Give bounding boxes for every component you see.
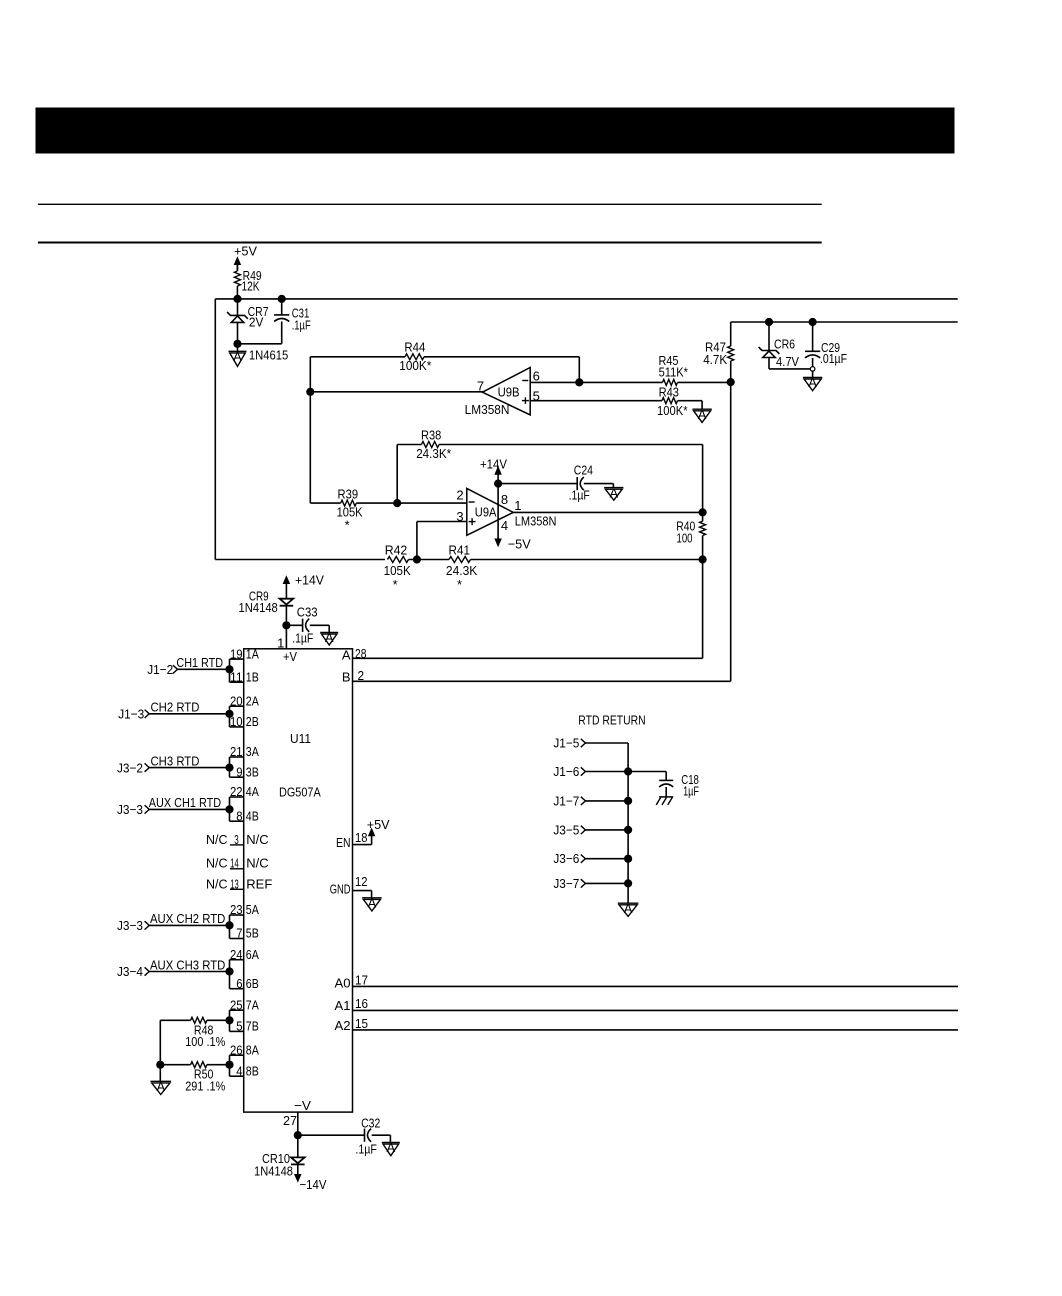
svg-text:RTD RETURN: RTD RETURN: [578, 713, 645, 728]
wire CR6 to C29 bottom: [769, 368, 810, 370]
pin A0 (17) wire: [335, 973, 959, 991]
node -14V: [295, 1174, 327, 1192]
node +14V (U9A): [480, 456, 507, 483]
svg-text:+5V: +5V: [234, 244, 257, 259]
connector J1-7: [553, 793, 632, 808]
svg-text:J1−7: J1−7: [553, 793, 579, 808]
pin 8 label: [501, 492, 508, 507]
svg-text:1N4148: 1N4148: [254, 1164, 293, 1179]
svg-text:AUX CH1 RTD: AUX CH1 RTD: [149, 795, 221, 810]
svg-text:+14V: +14V: [480, 456, 507, 471]
pin 1 label: [514, 498, 521, 513]
svg-text:REF: REF: [246, 876, 272, 891]
diode CR9: [239, 589, 294, 649]
junction pin6/R44: [575, 378, 583, 386]
wire pin5: [530, 400, 662, 402]
svg-text:A1: A1: [335, 998, 351, 1013]
svg-text:511K*: 511K*: [659, 365, 688, 380]
resistor R40: [676, 512, 705, 559]
svg-text:R42: R42: [385, 543, 408, 558]
svg-text:1N4148: 1N4148: [239, 600, 278, 615]
resistor R44: [310, 340, 579, 373]
pin pair 8A/8B (26/4): [225, 1042, 259, 1078]
svg-text:27: 27: [283, 1113, 297, 1128]
svg-text:A: A: [609, 485, 618, 500]
svg-text:2A: 2A: [246, 693, 259, 708]
wire CR7-C31 link: [238, 343, 282, 345]
node open junction C29/CR6: [810, 367, 815, 372]
svg-text:+5V: +5V: [367, 817, 390, 832]
svg-text:R38: R38: [421, 428, 441, 443]
resistor R41: [446, 543, 478, 592]
ground R48/R50 (analog): [151, 1065, 172, 1095]
svg-text:17: 17: [355, 973, 368, 988]
svg-text:100K*: 100K*: [657, 403, 688, 418]
ground C24 (analog): [604, 484, 623, 501]
svg-text:24.3K: 24.3K: [446, 563, 478, 578]
junction R47 bottom: [727, 378, 735, 386]
pin 5 label: [533, 388, 540, 403]
svg-text:11: 11: [230, 669, 243, 684]
svg-text:R44: R44: [404, 340, 425, 355]
junction +14V/C24: [494, 480, 502, 488]
U9A plus input: [469, 518, 476, 525]
svg-text:U11: U11: [290, 731, 311, 746]
svg-text:100: 100: [677, 530, 693, 545]
svg-text:6: 6: [533, 369, 540, 384]
svg-text:1N4615: 1N4615: [249, 348, 288, 363]
svg-text:23: 23: [230, 902, 243, 917]
pin EN (18) +5V: [336, 817, 390, 850]
pin 4 label: [501, 518, 508, 533]
svg-text:R39: R39: [338, 487, 359, 502]
svg-text:25: 25: [230, 997, 243, 1012]
junction C29 top: [809, 318, 817, 326]
connector J1-5: [553, 736, 628, 751]
junction output/R40: [699, 508, 707, 516]
svg-text:N/C: N/C: [246, 855, 268, 870]
svg-text:A: A: [342, 647, 351, 662]
junction R49/top rail: [233, 295, 241, 303]
svg-text:R43: R43: [659, 385, 679, 400]
svg-text:J3−3: J3−3: [117, 918, 143, 933]
wire RTD return trunk: [627, 743, 629, 903]
junction CR9/C33: [282, 621, 290, 629]
header rule upper: [38, 203, 822, 205]
wire pin B feed: [353, 382, 731, 681]
resistor R43: [657, 385, 702, 418]
svg-text:2B: 2B: [246, 714, 259, 729]
svg-text:R41: R41: [449, 543, 471, 558]
svg-text:J1−3: J1−3: [118, 707, 144, 722]
junction R40 bottom: [699, 555, 707, 563]
svg-text:A: A: [156, 1079, 165, 1094]
svg-text:J3−3: J3−3: [117, 802, 143, 817]
svg-text:*: *: [345, 518, 350, 533]
svg-text:1A: 1A: [246, 646, 259, 661]
connector J3-5: [553, 822, 632, 837]
svg-text:*: *: [393, 577, 398, 592]
op-amp U9A: [467, 488, 557, 535]
svg-text:19: 19: [230, 646, 243, 661]
svg-text:6B: 6B: [246, 976, 259, 991]
input channel CH2 RTD (J1−3 pins 20/10): [118, 693, 259, 729]
svg-text:6: 6: [236, 976, 242, 991]
svg-text:CH1 RTD: CH1 RTD: [176, 655, 223, 670]
pin A (28): [342, 646, 367, 662]
pin GND (12): [330, 874, 372, 898]
svg-text:N/C: N/C: [206, 855, 228, 870]
wire +14V through U9A: [497, 484, 499, 538]
svg-text:105K: 105K: [337, 504, 363, 519]
junction CR6 top: [765, 318, 773, 326]
resistor R50: [160, 1062, 229, 1094]
svg-text:LM358N: LM358N: [465, 402, 510, 417]
svg-text:CH2 RTD: CH2 RTD: [151, 700, 200, 715]
pin 3 N/C: [206, 832, 269, 847]
input channel AUX CH1 RTD (J3−3 pins 22/8): [117, 784, 259, 823]
pin 6 label: [533, 369, 540, 384]
svg-text:A0: A0: [335, 976, 351, 991]
svg-text:5A: 5A: [246, 902, 259, 917]
input channel CH1 RTD (J1−2 pins 19/11): [147, 646, 259, 684]
resistor R39: [310, 487, 467, 533]
pin 3 label: [456, 509, 463, 524]
svg-text:3A: 3A: [246, 744, 259, 759]
wire R38 right vertical: [702, 445, 704, 513]
pin A2 (15) wire: [335, 1016, 959, 1033]
resistor R38: [397, 428, 702, 461]
svg-text:7B: 7B: [246, 1019, 259, 1034]
ground RTD return (analog): [618, 901, 639, 917]
resistor R45: [530, 353, 731, 386]
svg-text:6A: 6A: [246, 947, 259, 962]
svg-text:7A: 7A: [246, 997, 259, 1012]
svg-text:.1µF: .1µF: [292, 318, 311, 333]
svg-text:J1−6: J1−6: [553, 764, 579, 779]
svg-text:C24: C24: [574, 463, 593, 478]
svg-text:A: A: [808, 375, 817, 390]
wire left feedback vertical: [214, 299, 216, 560]
multiplexer U11 DG507A: [244, 649, 353, 1113]
pin 2 label: [456, 488, 463, 503]
header rule lower: [38, 242, 822, 244]
svg-text:12K: 12K: [242, 278, 260, 293]
svg-text:*: *: [457, 577, 462, 592]
wire bottom rail: [215, 559, 385, 561]
wire R44 to pin6: [578, 357, 580, 383]
wire rail2: [731, 321, 958, 323]
wire R38 to R39: [396, 445, 398, 504]
svg-text:EN: EN: [336, 835, 351, 850]
svg-text:5B: 5B: [246, 926, 259, 941]
resistor R48: [160, 1017, 229, 1049]
label RTD RETURN: [578, 713, 645, 728]
svg-text:105K: 105K: [384, 563, 411, 578]
ground C18 (chassis): [656, 797, 673, 805]
svg-text:A: A: [325, 630, 334, 645]
capacitor C31: [274, 299, 311, 344]
svg-text:7: 7: [477, 378, 484, 393]
svg-text:A: A: [698, 407, 707, 422]
junction CR7 bottom: [233, 340, 241, 348]
svg-text:4A: 4A: [246, 784, 259, 799]
svg-text:+14V: +14V: [295, 573, 324, 588]
pin 27 (-V): [283, 1112, 298, 1135]
node +14V (CR9): [283, 573, 324, 591]
svg-text:2: 2: [456, 488, 463, 503]
svg-text:A: A: [386, 1140, 395, 1155]
svg-text:AUX CH3 RTD: AUX CH3 RTD: [150, 957, 225, 972]
op-amp U9B: [465, 368, 531, 418]
svg-text:4.7K: 4.7K: [703, 352, 727, 367]
svg-text:CR6: CR6: [774, 337, 795, 352]
wire C18 branch: [628, 772, 666, 781]
wire U9A output: [513, 511, 702, 513]
svg-text:DG507A: DG507A: [279, 785, 321, 800]
input channel AUX CH3 RTD (J3−4 pins 24/6): [117, 947, 259, 991]
wire top rail: [215, 298, 957, 300]
connector J3-6: [553, 851, 632, 866]
svg-text:8A: 8A: [246, 1042, 259, 1057]
svg-text:.1µF: .1µF: [569, 487, 590, 502]
node -5V (U9A): [495, 537, 531, 552]
ground CR7 (analog): [229, 344, 247, 367]
ground C29 (analog): [803, 371, 822, 391]
title bar: [36, 108, 954, 153]
svg-text:N/C: N/C: [206, 832, 228, 847]
junction C31/top rail: [278, 295, 286, 303]
svg-text:−V: −V: [294, 1098, 311, 1113]
pin 14 N/C: [206, 855, 269, 870]
svg-text:C33: C33: [297, 605, 318, 620]
svg-text:−5V: −5V: [508, 537, 531, 552]
junction R50 left: [156, 1061, 164, 1069]
svg-text:8B: 8B: [246, 1063, 259, 1078]
pin A1 (16) wire: [335, 996, 959, 1013]
resistor R42: [384, 543, 411, 592]
svg-text:4B: 4B: [246, 808, 259, 823]
svg-text:.1µF: .1µF: [355, 1141, 377, 1156]
svg-text:12: 12: [355, 874, 368, 889]
wire R41 to R40: [471, 559, 703, 561]
svg-text:−14V: −14V: [300, 1177, 327, 1192]
pin B (2): [342, 668, 364, 685]
svg-text:22: 22: [230, 784, 243, 799]
input channel AUX CH2 RTD (J3−3 pins 23/7): [117, 902, 259, 941]
svg-text:N/C: N/C: [246, 832, 268, 847]
svg-text:291 .1%: 291 .1%: [185, 1079, 225, 1094]
svg-text:28: 28: [355, 646, 366, 661]
svg-text:CH3 RTD: CH3 RTD: [151, 753, 200, 768]
svg-text:B: B: [342, 669, 351, 684]
capacitor C24: [498, 463, 613, 503]
pin 1 label (+V): [277, 636, 284, 651]
diode CR10: [254, 1135, 305, 1179]
svg-text:N/C: N/C: [206, 876, 228, 891]
zener CR6: [759, 322, 800, 369]
svg-text:.1µF: .1µF: [292, 631, 313, 646]
pin 13 N/C: [206, 876, 272, 891]
svg-text:GND: GND: [330, 881, 351, 896]
svg-text:4: 4: [501, 518, 508, 533]
svg-text:J1−5: J1−5: [553, 736, 579, 751]
capacitor C32: [298, 1115, 391, 1156]
svg-text:A: A: [368, 896, 377, 911]
svg-text:A: A: [233, 349, 242, 364]
ground C32 (analog): [382, 1135, 400, 1156]
svg-text:J3−2: J3−2: [117, 760, 143, 775]
svg-text:LM358N: LM358N: [515, 513, 557, 528]
svg-text:21: 21: [230, 744, 243, 759]
connector J3-7: [553, 876, 632, 891]
pin pair 7A/7B (25/5): [225, 997, 259, 1033]
wire R42-R41: [409, 559, 450, 561]
svg-text:7: 7: [236, 926, 242, 941]
svg-text:2: 2: [358, 668, 365, 683]
svg-text:15: 15: [355, 1016, 368, 1031]
ground R43 (analog): [692, 401, 711, 423]
U9B minus input: [522, 380, 528, 382]
svg-text:20: 20: [230, 693, 243, 708]
wire R48-R50 link: [159, 1020, 161, 1064]
svg-text:.01µF: .01µF: [820, 351, 847, 366]
svg-text:1µF: 1µF: [683, 783, 699, 798]
svg-text:J3−5: J3−5: [553, 822, 579, 837]
ground C33 (analog): [320, 625, 338, 645]
svg-text:100 .1%: 100 .1%: [185, 1034, 225, 1049]
junction pin27: [294, 1131, 302, 1139]
wire U9B pin7: [310, 391, 483, 393]
junction pin7 wire: [306, 388, 314, 396]
svg-text:9: 9: [236, 764, 242, 779]
svg-text:J3−4: J3−4: [117, 964, 143, 979]
U9A minus input: [469, 501, 475, 503]
wire R38 left vertical: [309, 357, 311, 503]
U9B plus input: [522, 397, 529, 404]
capacitor C29: [805, 322, 847, 367]
wire pin A feed: [353, 560, 703, 659]
svg-text:U9A: U9A: [475, 505, 497, 520]
label 1N4615: [249, 348, 288, 363]
svg-text:24: 24: [230, 947, 243, 962]
capacitor C33: [286, 605, 329, 646]
svg-text:100K*: 100K*: [399, 358, 431, 373]
svg-text:A2: A2: [335, 1018, 351, 1033]
svg-text:26: 26: [230, 1042, 243, 1057]
junction R39/R38: [393, 499, 401, 507]
node +5V (R49): [234, 244, 257, 271]
svg-text:A: A: [624, 901, 633, 916]
svg-text:U9B: U9B: [498, 384, 520, 399]
resistor R47: [703, 322, 734, 382]
svg-text:16: 16: [355, 996, 368, 1011]
svg-text:+V: +V: [283, 649, 297, 664]
svg-text:4.7V: 4.7V: [776, 354, 799, 369]
svg-text:2V: 2V: [249, 314, 264, 329]
resistor R49: [234, 262, 261, 299]
zener CR7: [227, 299, 269, 344]
svg-text:1B: 1B: [246, 669, 259, 684]
svg-text:4: 4: [236, 1063, 242, 1078]
ground GND pin (analog): [362, 896, 381, 912]
capacitor C18: [659, 772, 699, 799]
svg-text:10: 10: [230, 714, 243, 729]
svg-text:8: 8: [501, 492, 508, 507]
pin 7 label: [477, 378, 484, 393]
svg-text:J1−2: J1−2: [147, 662, 173, 677]
svg-text:5: 5: [236, 1019, 242, 1034]
svg-text:C32: C32: [361, 1115, 380, 1130]
svg-text:8: 8: [236, 808, 242, 823]
wire U9A pin3: [417, 522, 467, 560]
svg-text:J3−6: J3−6: [553, 851, 579, 866]
input channel CH3 RTD (J3−2 pins 21/9): [117, 744, 259, 779]
svg-text:3B: 3B: [246, 764, 259, 779]
svg-text:J3−7: J3−7: [553, 876, 579, 891]
junction pin3/bottom rail: [413, 555, 421, 563]
svg-text:1: 1: [514, 498, 521, 513]
svg-text:18: 18: [355, 830, 368, 845]
svg-text:AUX CH2 RTD: AUX CH2 RTD: [150, 911, 225, 926]
connector J1-6: [553, 764, 632, 779]
svg-text:24.3K*: 24.3K*: [416, 446, 451, 461]
